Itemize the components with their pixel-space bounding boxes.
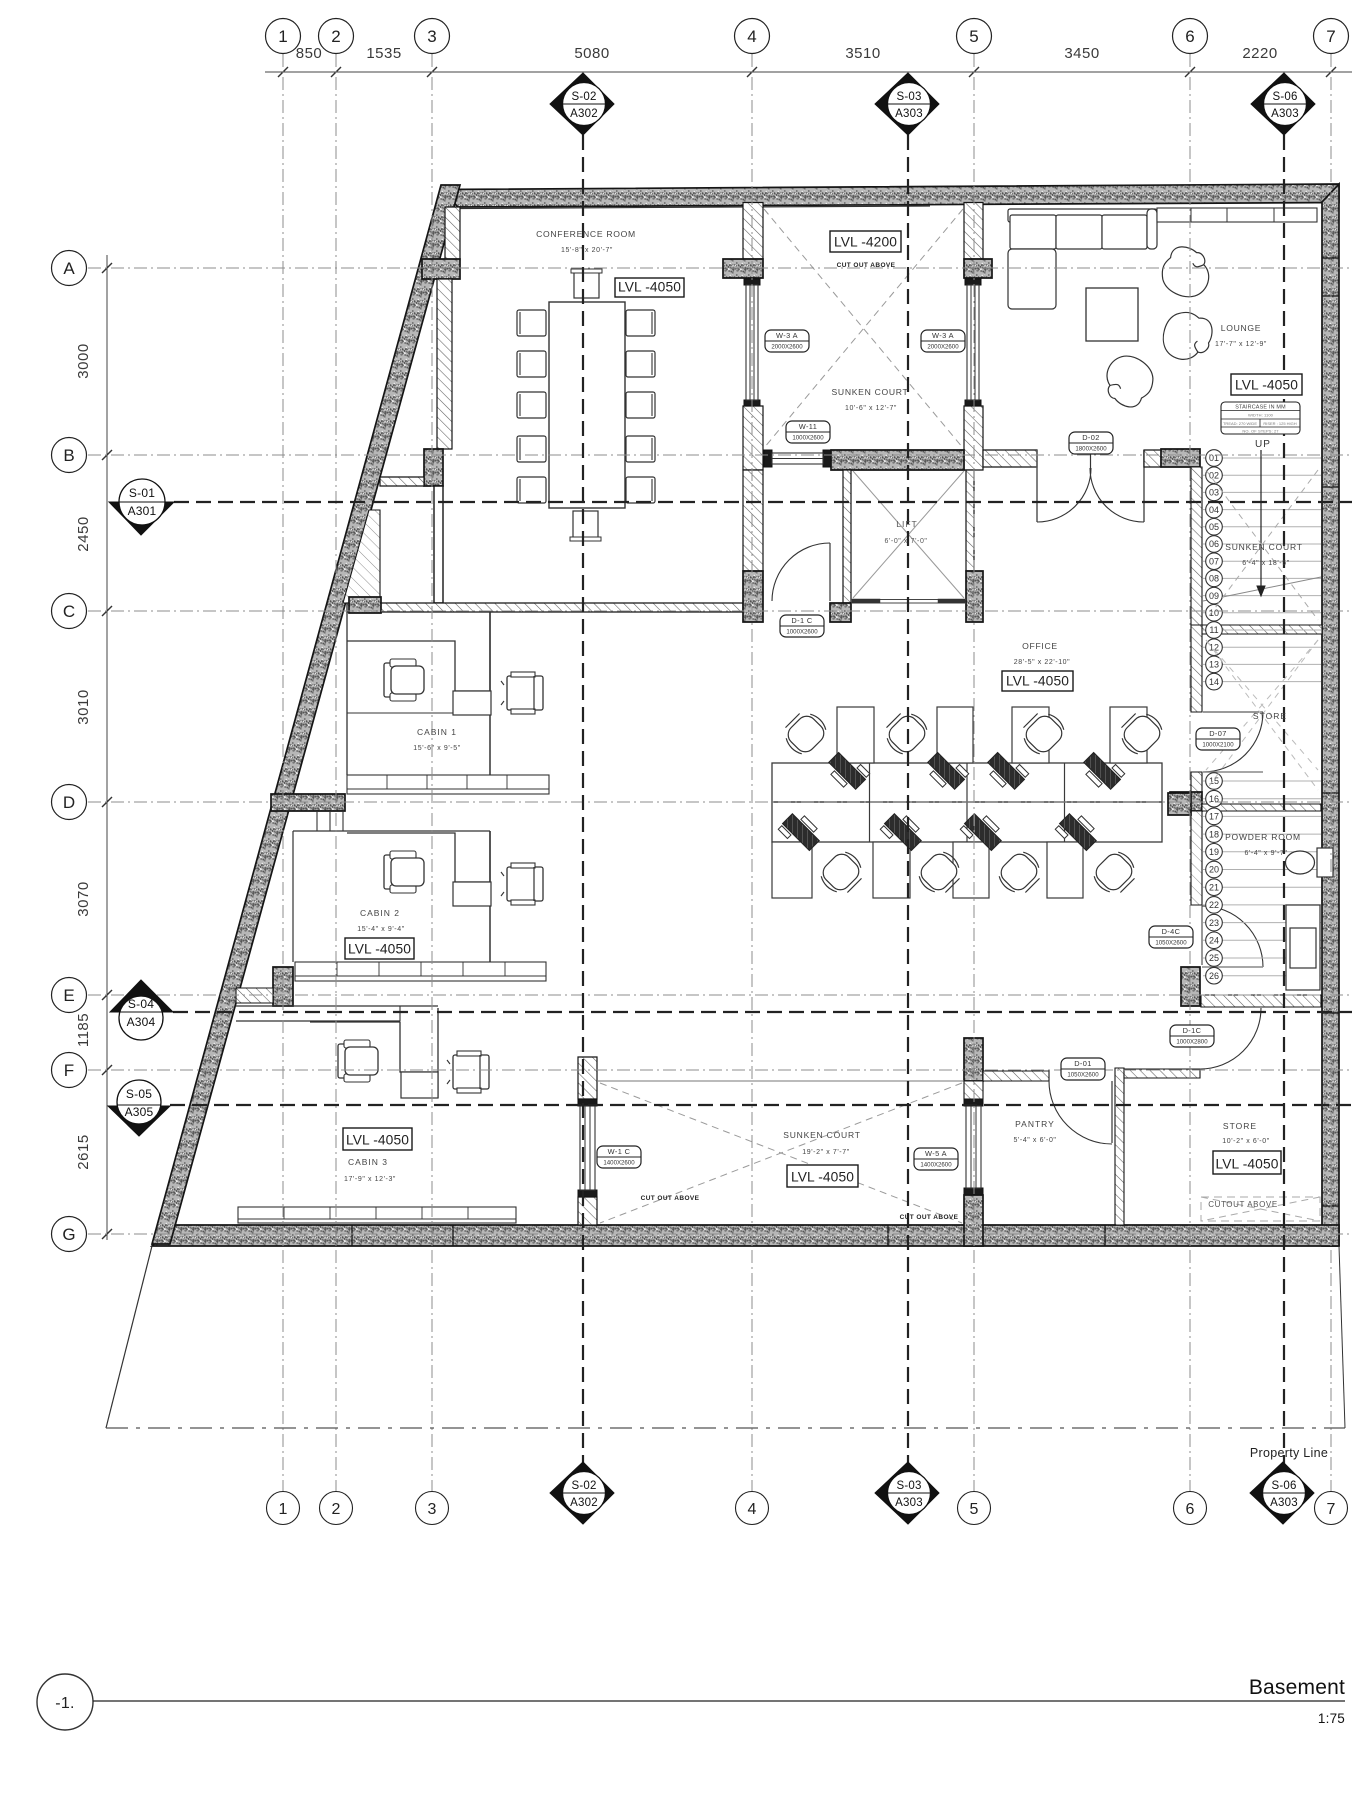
section line S-03 vertical xyxy=(907,135,909,1478)
svg-text:W-5 A: W-5 A xyxy=(925,1149,947,1158)
title line xyxy=(93,1700,1345,1702)
svg-text:1050X2600: 1050X2600 xyxy=(1067,1072,1099,1079)
svg-text:10'-6" x 12'-7": 10'-6" x 12'-7" xyxy=(845,405,897,412)
stair sunken court label xyxy=(1225,542,1302,567)
tag W-11 xyxy=(786,421,830,443)
LVL -4050 sunken bottom xyxy=(787,1165,858,1187)
svg-text:LVL -4050: LVL -4050 xyxy=(1215,1157,1278,1172)
lounge console shelf xyxy=(1157,208,1317,222)
tag D-07 xyxy=(1196,728,1240,750)
svg-text:2000X2600: 2000X2600 xyxy=(927,344,959,351)
sunken court top label xyxy=(832,387,909,412)
tag D-1C store xyxy=(1170,1025,1214,1047)
svg-text:3450: 3450 xyxy=(1064,45,1099,62)
svg-text:NO. OF STEPS: 27: NO. OF STEPS: 27 xyxy=(1242,429,1279,434)
window W-1C wall bottom xyxy=(578,1197,597,1225)
svg-text:10'-2" x 6'-0": 10'-2" x 6'-0" xyxy=(1222,1138,1270,1145)
svg-text:A302: A302 xyxy=(570,1497,598,1509)
cabin1 west wall line xyxy=(346,612,348,775)
pantry label xyxy=(1013,1119,1056,1144)
section marker S-03 top xyxy=(875,73,939,135)
court west wall to lift xyxy=(743,470,763,571)
svg-text:11: 11 xyxy=(1209,625,1218,635)
lounge sofa xyxy=(1008,209,1157,309)
svg-text:S-04: S-04 xyxy=(128,997,154,1011)
office monitors bottom row xyxy=(778,809,1102,856)
top dimension line xyxy=(265,67,1352,77)
stair break line xyxy=(1203,577,1321,601)
vertical grid lines 1-7 xyxy=(283,54,1331,1492)
svg-text:LVL -4200: LVL -4200 xyxy=(834,235,897,250)
court bottom north edge xyxy=(597,1080,964,1082)
court top X dashed xyxy=(764,209,963,448)
lift door sill xyxy=(851,599,966,603)
svg-text:1: 1 xyxy=(278,27,287,46)
svg-text:D-01: D-01 xyxy=(1074,1059,1092,1068)
svg-text:S-03: S-03 xyxy=(896,91,921,103)
cabin3 label xyxy=(344,1157,396,1183)
sunken court bottom label xyxy=(783,1130,860,1156)
svg-text:C: C xyxy=(63,602,75,621)
tag W-5A xyxy=(914,1148,958,1170)
svg-text:6'-4" x 9'-7": 6'-4" x 9'-7" xyxy=(1244,850,1287,857)
hatched stub wall at row B xyxy=(380,477,424,486)
svg-text:A: A xyxy=(63,259,75,278)
section marker S-03 bottom xyxy=(875,1462,939,1524)
svg-text:15'-4" x 9'-4": 15'-4" x 9'-4" xyxy=(357,926,405,933)
svg-text:W-11: W-11 xyxy=(799,422,818,431)
svg-text:CUT OUT ABOVE: CUT OUT ABOVE xyxy=(900,1214,959,1221)
exterior right wall xyxy=(1322,184,1339,1246)
svg-text:3: 3 xyxy=(428,1501,437,1518)
svg-text:2000X2600: 2000X2600 xyxy=(771,344,803,351)
tag W-3A west xyxy=(765,330,809,352)
left dimension texts xyxy=(75,343,92,1169)
office chairs bottom row xyxy=(816,847,1141,899)
court east wall upper xyxy=(964,203,983,260)
svg-text:WIDTH: 1100: WIDTH: 1100 xyxy=(1248,413,1274,418)
store mid X dashes xyxy=(1206,640,1318,770)
staircase sunken court X xyxy=(1206,470,1318,790)
svg-text:D-1 C: D-1 C xyxy=(791,616,813,625)
D-02 double door xyxy=(1037,447,1144,522)
svg-text:08: 08 xyxy=(1209,574,1219,584)
conference north wall face xyxy=(460,206,930,209)
svg-text:3010: 3010 xyxy=(75,689,92,724)
svg-text:LVL -4050: LVL -4050 xyxy=(1006,674,1069,689)
svg-text:STAIRCASE IN MM: STAIRCASE IN MM xyxy=(1235,405,1286,411)
svg-text:LVL -4050: LVL -4050 xyxy=(346,1133,409,1148)
svg-text:S-02: S-02 xyxy=(571,91,596,103)
cut out above labels xyxy=(641,262,1278,1221)
tag W-1C xyxy=(597,1146,641,1168)
lift east pier xyxy=(966,571,983,622)
svg-text:S-03: S-03 xyxy=(896,1480,921,1492)
svg-text:A303: A303 xyxy=(895,1497,923,1509)
svg-text:1000X2100: 1000X2100 xyxy=(1202,742,1234,749)
svg-text:LIFT: LIFT xyxy=(896,519,917,529)
tag D-02 xyxy=(1069,432,1113,454)
svg-text:1800X2600: 1800X2600 xyxy=(1075,446,1107,453)
svg-text:PANTRY: PANTRY xyxy=(1015,1119,1055,1129)
section marker S-05 left xyxy=(108,1080,170,1136)
washbasin counter xyxy=(1286,905,1326,990)
svg-text:S-02: S-02 xyxy=(571,1480,596,1492)
svg-text:1400X2600: 1400X2600 xyxy=(920,1162,952,1169)
svg-text:15'-8" x 20'-7": 15'-8" x 20'-7" xyxy=(561,247,613,254)
svg-text:05: 05 xyxy=(1209,522,1219,532)
W-5A wall pier top xyxy=(964,1038,983,1081)
pantry east wall xyxy=(1115,1068,1124,1225)
svg-text:2615: 2615 xyxy=(75,1134,92,1169)
wall joints xyxy=(352,258,1339,1246)
pier west of D-1C door xyxy=(743,571,763,622)
svg-text:A301: A301 xyxy=(128,504,157,518)
wall under stair flight (step 11) xyxy=(1202,625,1322,634)
cabin1 label xyxy=(413,727,461,752)
svg-text:UP: UP xyxy=(1255,439,1271,450)
window W-3A east xyxy=(965,279,981,406)
tag D-1C lift xyxy=(780,615,824,637)
powder bottom wall xyxy=(1201,995,1321,1007)
svg-text:26: 26 xyxy=(1209,971,1219,981)
svg-text:D: D xyxy=(63,793,75,812)
svg-text:STORE: STORE xyxy=(1253,711,1287,721)
svg-text:3510: 3510 xyxy=(845,45,880,62)
svg-text:S-01: S-01 xyxy=(129,486,155,500)
staircase table xyxy=(1221,402,1300,434)
tag D-01 xyxy=(1061,1058,1105,1080)
section line S-04 horizontal xyxy=(173,1011,1352,1013)
lounge armchair 1 xyxy=(1156,242,1217,303)
cabin2 north line xyxy=(293,830,490,832)
svg-text:S-06: S-06 xyxy=(1271,1480,1296,1492)
office monitors top row xyxy=(824,748,1126,795)
wall between D-02 and stair xyxy=(1144,450,1161,467)
svg-text:B: B xyxy=(63,446,74,465)
svg-text:CUTOUT ABOVE: CUTOUT ABOVE xyxy=(1208,1200,1278,1209)
svg-text:2: 2 xyxy=(331,27,340,46)
svg-text:03: 03 xyxy=(1209,488,1219,498)
top dimension texts xyxy=(296,45,1278,62)
exterior slanted left wall xyxy=(152,185,460,1244)
svg-text:5: 5 xyxy=(970,1501,979,1518)
stair west wall xyxy=(1191,467,1202,625)
svg-text:19: 19 xyxy=(1209,847,1219,857)
svg-text:OFFICE: OFFICE xyxy=(1022,641,1058,651)
svg-text:S-06: S-06 xyxy=(1272,91,1297,103)
svg-text:1000X2600: 1000X2600 xyxy=(792,435,824,442)
svg-text:6'-0" x 7'-0": 6'-0" x 7'-0" xyxy=(884,538,927,545)
LVL -4050 conference xyxy=(615,278,684,297)
cabin3 visitor chair xyxy=(447,1051,489,1093)
svg-text:2220: 2220 xyxy=(1242,45,1277,62)
svg-text:Property Line: Property Line xyxy=(1250,1446,1328,1460)
svg-text:24: 24 xyxy=(1209,936,1219,946)
svg-text:LVL -4050: LVL -4050 xyxy=(618,280,681,295)
cabin2 label xyxy=(357,908,405,933)
stair north pier xyxy=(1161,449,1200,467)
pier cabin1/2 row D xyxy=(271,794,345,811)
svg-text:1: 1 xyxy=(279,1501,288,1518)
section line S-01 horizontal xyxy=(174,501,1352,503)
section marker S-02 bottom xyxy=(550,1462,614,1524)
svg-text:CABIN 1: CABIN 1 xyxy=(417,727,457,737)
court east pier row A xyxy=(964,259,992,278)
svg-text:7: 7 xyxy=(1327,1501,1336,1518)
svg-text:23: 23 xyxy=(1209,918,1219,928)
top grid bubbles xyxy=(266,19,1349,54)
svg-text:6'-4" x 18'-5": 6'-4" x 18'-5" xyxy=(1242,560,1290,567)
cabin2 west line xyxy=(292,831,294,962)
svg-text:6: 6 xyxy=(1186,1501,1195,1518)
cabin2 exec chair xyxy=(384,851,424,893)
conference head chair top xyxy=(571,269,602,298)
svg-text:F: F xyxy=(64,1061,74,1080)
section line S-02 vertical xyxy=(582,135,584,1478)
lounge coffee table xyxy=(1086,288,1138,341)
svg-text:3000: 3000 xyxy=(75,343,92,378)
svg-text:2: 2 xyxy=(332,1501,341,1518)
svg-text:14: 14 xyxy=(1209,677,1219,687)
W-5A wall hatched xyxy=(964,1081,983,1099)
toilet xyxy=(1286,848,1334,877)
svg-text:20: 20 xyxy=(1209,865,1219,875)
svg-text:LOUNGE: LOUNGE xyxy=(1221,323,1262,333)
office label xyxy=(1014,641,1071,666)
svg-text:TREAD: 270 WIDE: TREAD: 270 WIDE xyxy=(1223,421,1257,426)
svg-text:D-07: D-07 xyxy=(1209,729,1227,738)
svg-text:LVL -4050: LVL -4050 xyxy=(1235,378,1298,393)
wall segment above row A (conference west) xyxy=(445,207,460,260)
cabin1 exec chair xyxy=(384,659,424,701)
LVL -4050 office xyxy=(1002,671,1073,691)
svg-text:S-05: S-05 xyxy=(126,1087,152,1101)
horizontal grid lines A-G xyxy=(88,268,1352,1234)
conference room label xyxy=(536,229,636,254)
svg-text:LVL -4050: LVL -4050 xyxy=(791,1170,854,1185)
svg-text:17'-7" x 12'-9": 17'-7" x 12'-9" xyxy=(1215,341,1267,348)
LVL -4050 cabin3 xyxy=(343,1128,412,1150)
svg-text:A304: A304 xyxy=(127,1015,156,1029)
cabin3 desk xyxy=(310,1008,438,1098)
lounge label xyxy=(1215,323,1267,348)
svg-text:G: G xyxy=(62,1225,75,1244)
section marker S-06 bottom xyxy=(1250,1462,1314,1524)
svg-text:18: 18 xyxy=(1209,829,1219,839)
store bottom label xyxy=(1222,1121,1270,1145)
court west pier row A xyxy=(723,259,763,278)
svg-text:2450: 2450 xyxy=(75,516,92,551)
svg-text:LVL -4050: LVL -4050 xyxy=(348,942,411,957)
stair up arrow xyxy=(1257,450,1265,596)
svg-text:D-1C: D-1C xyxy=(1183,1026,1202,1035)
pantry north wall xyxy=(983,1071,1049,1081)
svg-text:SUNKEN COURT: SUNKEN COURT xyxy=(1225,542,1302,552)
section marker S-02 top xyxy=(550,73,614,135)
svg-text:4: 4 xyxy=(747,27,756,46)
window W-3A west xyxy=(744,279,760,406)
svg-text:W-3 A: W-3 A xyxy=(932,331,954,340)
svg-text:5'-4" x 6'-0": 5'-4" x 6'-0" xyxy=(1013,1137,1056,1144)
D-01 door xyxy=(1040,1071,1112,1144)
svg-text:W-3 A: W-3 A xyxy=(776,331,798,340)
pier below D-4C xyxy=(1181,967,1200,1006)
svg-text:CABIN 2: CABIN 2 xyxy=(360,908,400,918)
svg-text:1:75: 1:75 xyxy=(1318,1711,1345,1726)
pier row D stair side xyxy=(1170,792,1202,811)
svg-text:A303: A303 xyxy=(895,108,923,120)
cabin1 credenza xyxy=(347,775,549,794)
svg-text:06: 06 xyxy=(1209,539,1219,549)
LVL -4050 store xyxy=(1213,1151,1281,1174)
D-07 door xyxy=(1203,712,1263,772)
left row bubbles xyxy=(52,251,87,1252)
svg-text:17: 17 xyxy=(1209,812,1219,822)
stair treads flight 2 xyxy=(1203,781,1321,976)
svg-text:CUT OUT ABOVE: CUT OUT ABOVE xyxy=(641,1195,700,1202)
cabin1 partition east xyxy=(489,612,491,775)
title sheet circle xyxy=(37,1674,93,1730)
svg-text:SUNKEN COURT: SUNKEN COURT xyxy=(783,1130,860,1140)
tag W-3A east xyxy=(921,330,965,352)
D-4C door xyxy=(1202,905,1263,967)
svg-text:POWDER ROOM: POWDER ROOM xyxy=(1225,832,1301,842)
cabin3 exec chair xyxy=(338,1040,378,1082)
svg-text:22: 22 xyxy=(1209,900,1219,910)
cabin2 desk xyxy=(347,831,491,906)
svg-text:W-1 C: W-1 C xyxy=(608,1147,631,1156)
section line S-05 horizontal xyxy=(170,1104,1352,1106)
wall east of court (to D-02) xyxy=(983,450,1037,467)
svg-text:1050X2600: 1050X2600 xyxy=(1155,940,1187,947)
window W-1C xyxy=(578,1099,597,1197)
svg-text:09: 09 xyxy=(1209,591,1219,601)
cabin2 partition east xyxy=(489,831,491,962)
svg-text:1185: 1185 xyxy=(75,1013,92,1047)
powder room label xyxy=(1225,832,1301,857)
svg-text:5: 5 xyxy=(969,27,978,46)
pier at row C on slant xyxy=(349,597,381,613)
door D-1C at lift corridor xyxy=(772,543,830,601)
svg-text:1000X2600: 1000X2600 xyxy=(786,629,818,636)
svg-text:15'-6" x 9'-5": 15'-6" x 9'-5" xyxy=(413,745,461,752)
svg-text:STORE: STORE xyxy=(1223,1121,1257,1131)
svg-text:19'-2" x 7'-7": 19'-2" x 7'-7" xyxy=(802,1149,850,1156)
hatched stub row E xyxy=(236,988,273,1003)
window W-1C wall top xyxy=(578,1057,597,1099)
cabin3 credenza bottom xyxy=(238,1207,516,1223)
court bottom X dashed xyxy=(600,1083,962,1223)
conference west wall A-B xyxy=(437,279,452,449)
svg-text:6: 6 xyxy=(1185,27,1194,46)
svg-text:17'-9" x 12'-3": 17'-9" x 12'-3" xyxy=(344,1176,396,1183)
svg-text:25: 25 xyxy=(1209,953,1219,963)
corridor wall east of pantry xyxy=(1124,1069,1200,1078)
svg-text:850: 850 xyxy=(296,45,323,62)
office chairs top row xyxy=(778,706,1166,758)
svg-text:D-4C: D-4C xyxy=(1162,927,1181,936)
svg-text:-1.: -1. xyxy=(55,1695,75,1712)
svg-text:21: 21 xyxy=(1209,882,1219,892)
svg-text:1000X2800: 1000X2800 xyxy=(1176,1039,1208,1046)
court west wall lower xyxy=(743,406,763,470)
thin wall B-C near slant xyxy=(434,486,443,603)
svg-text:7: 7 xyxy=(1326,27,1335,46)
section marker S-01 left xyxy=(109,479,174,535)
svg-text:04: 04 xyxy=(1209,505,1219,515)
lounge armchair 3 xyxy=(1096,348,1161,413)
tag D-4C xyxy=(1149,926,1193,948)
window W-5A xyxy=(964,1099,983,1195)
W-5A wall pier bottom xyxy=(964,1195,983,1246)
left dimension line xyxy=(102,255,112,1240)
svg-text:RISER : 125 HIGH: RISER : 125 HIGH xyxy=(1263,421,1296,426)
svg-text:07: 07 xyxy=(1209,556,1219,566)
lift east wall xyxy=(966,470,974,571)
svg-text:SUNKEN COURT: SUNKEN COURT xyxy=(832,387,909,397)
svg-text:1535: 1535 xyxy=(366,45,401,62)
cabin2 visitor chair xyxy=(501,863,543,905)
lift label xyxy=(884,519,927,545)
svg-text:A305: A305 xyxy=(125,1105,154,1119)
svg-text:3: 3 xyxy=(427,27,436,46)
exterior bottom wall xyxy=(152,1225,1339,1246)
court west wall upper xyxy=(743,203,763,260)
lift X cross xyxy=(853,471,964,598)
svg-text:4: 4 xyxy=(748,1501,757,1518)
svg-text:28'-5" x 22'-10": 28'-5" x 22'-10" xyxy=(1014,659,1071,666)
lift west wall xyxy=(843,470,851,603)
bottom grid bubbles xyxy=(267,1492,1348,1525)
stair step number circles xyxy=(1206,450,1223,984)
hatched wedge along slant B-C xyxy=(343,510,380,603)
svg-text:10: 10 xyxy=(1209,608,1219,618)
svg-text:A303: A303 xyxy=(1271,108,1299,120)
wall below D-07 xyxy=(1191,772,1202,792)
svg-text:E: E xyxy=(63,986,74,1005)
svg-text:A302: A302 xyxy=(570,108,598,120)
exterior top wall xyxy=(441,184,1339,207)
store/powder divider wall xyxy=(1202,804,1321,811)
svg-text:CABIN 3: CABIN 3 xyxy=(348,1157,388,1167)
section marker S-04 left xyxy=(110,980,173,1040)
cabin3 north wall xyxy=(236,1006,438,1021)
office cluster desks xyxy=(772,707,1162,898)
stair treads flight 1 xyxy=(1203,458,1321,682)
powder west wall xyxy=(1191,811,1202,905)
svg-text:1400X2600: 1400X2600 xyxy=(603,1160,635,1167)
LVL -4200 court xyxy=(830,231,901,252)
cabin1 desk xyxy=(347,612,491,715)
row C wall xyxy=(347,603,743,612)
cabin2 step walls xyxy=(317,811,343,831)
svg-text:Basement: Basement xyxy=(1249,1676,1345,1699)
conference table xyxy=(549,302,625,508)
store cutout dashed xyxy=(1201,1197,1320,1221)
pier at row A on slant wall xyxy=(422,259,460,279)
pier at row B xyxy=(424,449,443,486)
pier row D office east xyxy=(1168,793,1191,815)
svg-text:3070: 3070 xyxy=(75,881,92,916)
cabin2 credenza xyxy=(295,962,546,981)
store(mid) west wall xyxy=(1191,625,1202,712)
court bottom wall xyxy=(831,450,964,470)
lift south pier west xyxy=(830,603,851,622)
D-1C door (store) xyxy=(1200,1008,1261,1069)
svg-text:5080: 5080 xyxy=(574,45,609,62)
section marker S-06 top xyxy=(1251,73,1315,135)
